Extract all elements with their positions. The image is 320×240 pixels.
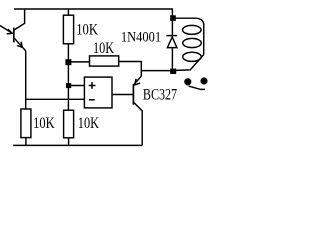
wire rail to R1	[67, 9, 69, 15]
wire diode cathode	[171, 21, 173, 36]
node C junction dot	[66, 83, 71, 88]
relay coil K1 right return	[203, 24, 205, 55]
resistor R4 10K body	[64, 110, 74, 138]
relay coil K1 exit wire	[176, 55, 204, 71]
wire R3 to ground rail	[25, 138, 27, 146]
op-amp U1 minus input label	[89, 99, 95, 101]
relay coil K1 loop 3	[183, 52, 202, 61]
wire Q1 emitter vertical	[25, 51, 27, 109]
wire rail right drop to node A	[171, 8, 173, 16]
svg-text:10K: 10K	[33, 115, 55, 132]
transistor Q1 base input arrow	[0, 26, 12, 34]
svg-text:10K: 10K	[93, 40, 115, 57]
wire top supply rail	[14, 8, 172, 10]
wire op-amp output to Q2 base	[112, 94, 133, 96]
wire R4 to ground rail	[68, 138, 70, 146]
relay contact left pole	[184, 78, 191, 85]
transistor Q1 collector wire	[14, 9, 24, 30]
svg-text:1N4001: 1N4001	[121, 29, 161, 45]
wire feedback from R2 to emitter node	[119, 62, 142, 77]
relay coil K1 loop 2	[183, 38, 202, 47]
wire bottom ground rail	[13, 144, 142, 146]
resistor R3 10K body	[21, 109, 31, 138]
transistor Q2 BC327 base bar	[132, 84, 134, 105]
svg-text:10K: 10K	[76, 22, 98, 39]
op-amp U1 plus input label	[89, 85, 96, 87]
transistor Q1 emitter	[14, 38, 25, 51]
node D junction dot	[170, 69, 176, 74]
wire emitter node to relay node D	[141, 70, 171, 72]
svg-text:10K: 10K	[78, 115, 100, 132]
resistor R1 10K body	[63, 15, 73, 44]
node B junction dot	[65, 59, 71, 65]
transistor Q2 emitter with arrow	[134, 76, 141, 84]
relay coil K1 loop 1	[183, 25, 202, 34]
resistor R2 10K body	[90, 56, 119, 66]
wire node B to feedback resistor	[68, 61, 89, 63]
svg-text:BC327: BC327	[143, 87, 177, 104]
node A junction dot	[170, 15, 176, 21]
wire divider vertical	[67, 44, 69, 111]
wire node C to op-amp non-inverting input	[68, 85, 84, 87]
diode D1 triangle	[167, 37, 177, 48]
diode D1 cathode bar	[166, 35, 177, 37]
relay contact armature	[189, 86, 205, 89]
transistor Q1 base bar	[13, 28, 15, 43]
relay coil K1 lead-in	[176, 18, 204, 25]
relay contact right pole	[200, 77, 207, 84]
wire diode anode to node E	[171, 48, 173, 71]
transistor Q2 collector	[134, 103, 142, 146]
op-amp U1 body	[84, 77, 112, 108]
wire emitter to op-amp inverting input	[26, 98, 85, 100]
